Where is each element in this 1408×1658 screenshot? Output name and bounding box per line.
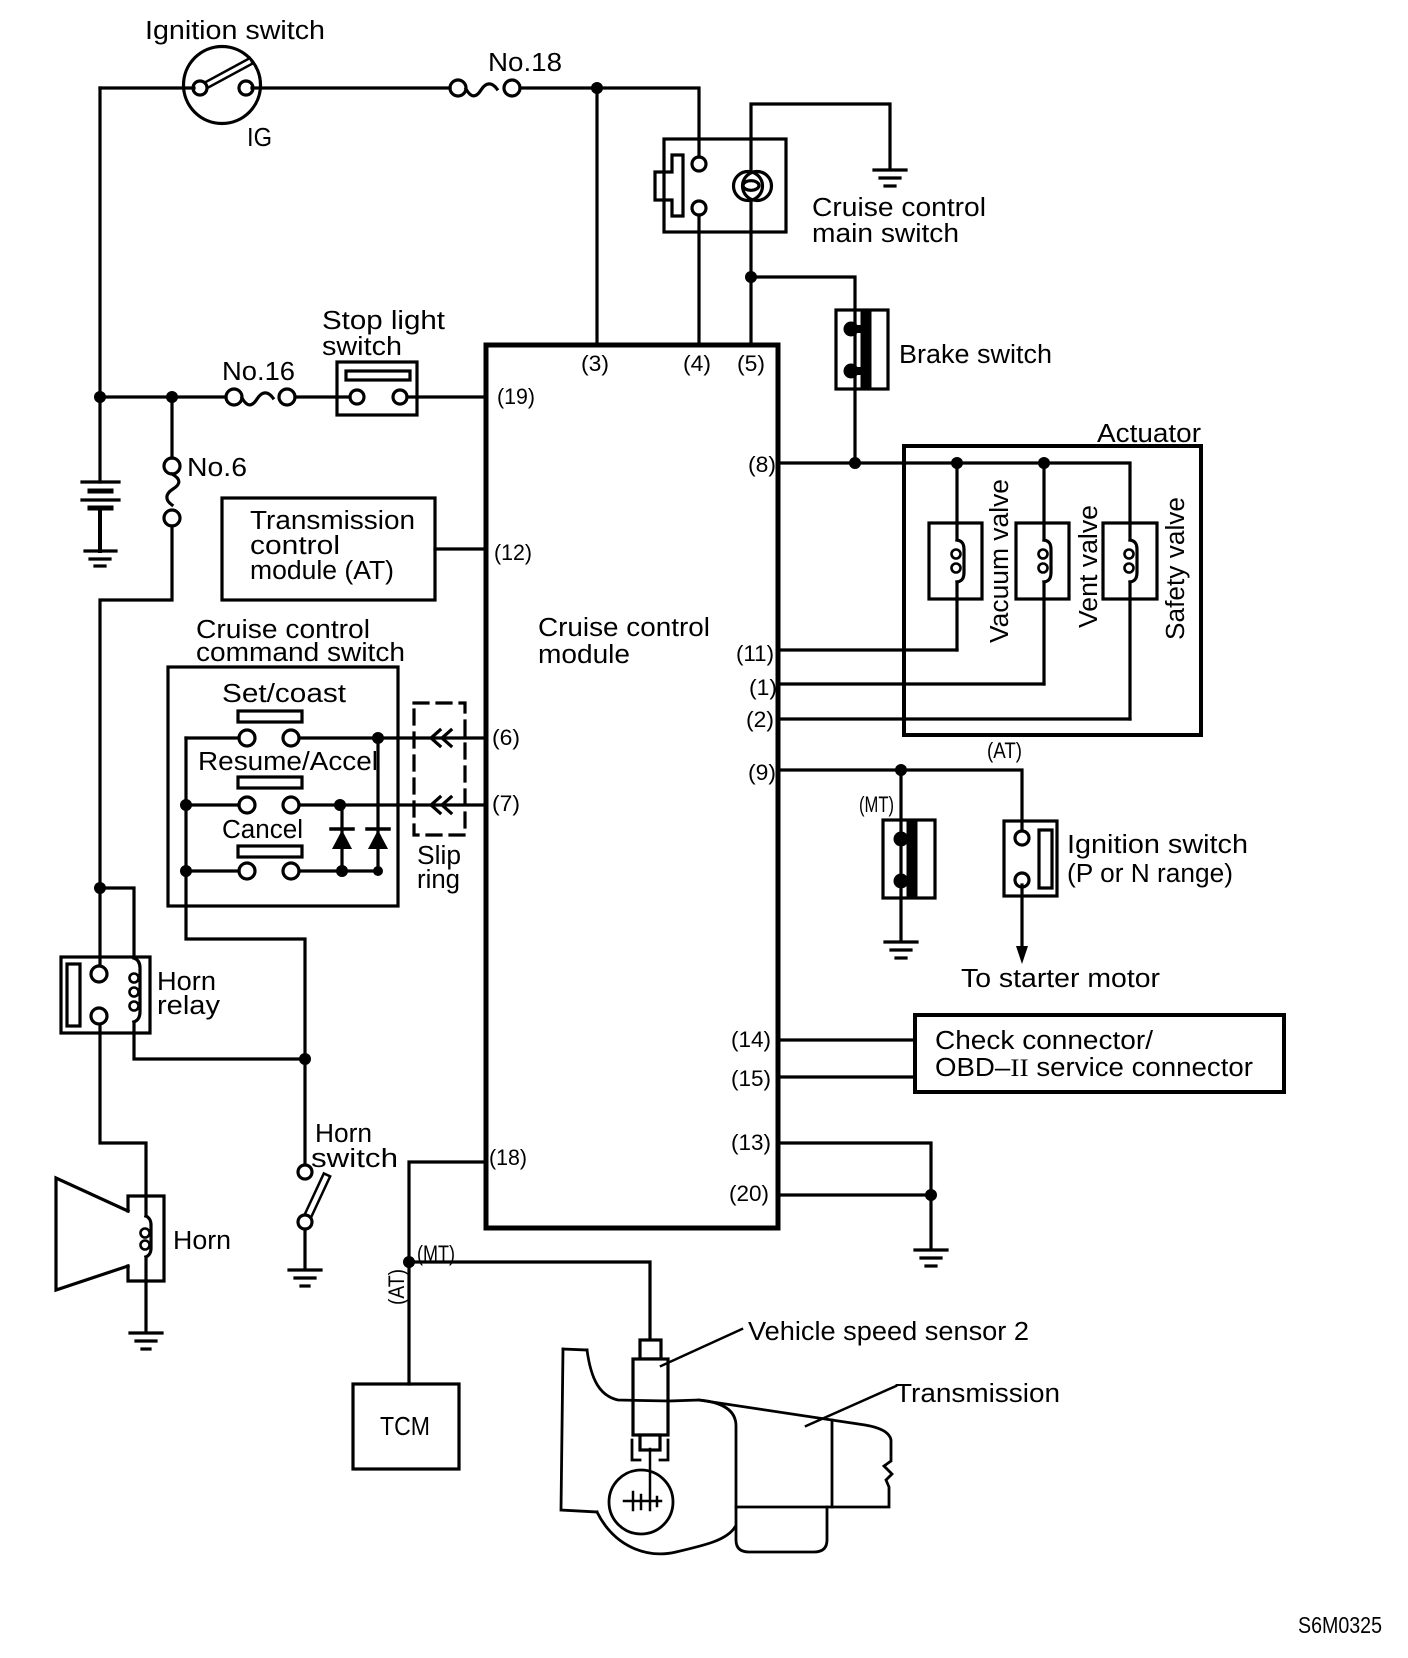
svg-text:Actuator: Actuator <box>1097 420 1202 448</box>
safety valve <box>1103 523 1157 719</box>
svg-text:Transmission: Transmission <box>895 1380 1060 1408</box>
svg-text:(MT): (MT) <box>859 792 894 817</box>
wire (15) <box>778 1075 915 1078</box>
slip ring arrow (6) <box>431 730 440 746</box>
node 13/20 <box>925 1189 937 1201</box>
wire cancel right to diodes <box>299 869 378 872</box>
svg-text:(11): (11) <box>736 641 774 666</box>
svg-text:(20): (20) <box>729 1181 769 1206</box>
svg-text:TCM: TCM <box>380 1411 430 1441</box>
vehicle speed sensor 2 <box>632 1340 668 1460</box>
svg-text:Safety valve: Safety valve <box>1162 497 1190 640</box>
svg-text:(15): (15) <box>731 1066 771 1091</box>
wire: pin 4 drop <box>697 215 700 345</box>
diode D1 <box>331 805 353 871</box>
svg-text:switch: switch <box>322 333 402 361</box>
TCM box <box>353 1384 459 1469</box>
wire: branch to brake switch <box>751 277 855 310</box>
svg-text:To starter motor: To starter motor <box>961 965 1161 993</box>
svg-text:ring: ring <box>417 866 460 894</box>
wire (13) <box>778 1143 931 1195</box>
stop light switch <box>337 362 417 415</box>
svg-text:Vehicle speed sensor 2: Vehicle speed sensor 2 <box>748 1318 1029 1346</box>
resume/accel switch <box>238 777 302 813</box>
svg-text:(2): (2) <box>746 707 774 732</box>
cruise control module box <box>486 345 778 1228</box>
wire resume left <box>186 803 239 806</box>
svg-text:Cruise control: Cruise control <box>538 614 710 642</box>
horn cone <box>56 1178 128 1290</box>
wire (6) <box>299 736 486 739</box>
svg-text:(6): (6) <box>492 725 520 750</box>
node horn switch <box>299 1053 311 1065</box>
svg-text:No.18: No.18 <box>488 49 562 77</box>
node cancel diode2 <box>373 866 383 876</box>
wire horn relay contact feed <box>98 888 101 965</box>
wire cancel left <box>186 869 239 872</box>
svg-text:Horn: Horn <box>173 1227 231 1255</box>
svg-text:(14): (14) <box>731 1027 771 1052</box>
svg-text:(5): (5) <box>737 351 765 376</box>
wire (11) <box>778 648 957 651</box>
svg-text:(P or N range): (P or N range) <box>1067 860 1233 888</box>
svg-text:No.16: No.16 <box>222 358 295 386</box>
wire horn relay coil feed <box>100 888 134 958</box>
diode D2 <box>367 738 389 871</box>
svg-text:(4): (4) <box>683 351 711 376</box>
wire (14) <box>778 1038 915 1041</box>
svg-text:(AT): (AT) <box>987 738 1022 763</box>
svg-text:command switch: command switch <box>196 639 405 667</box>
vacuum valve <box>929 463 982 650</box>
svg-text:(19): (19) <box>497 384 535 409</box>
check connector box <box>915 1015 1284 1092</box>
wire (19) <box>407 395 486 398</box>
svg-text:switch: switch <box>311 1145 398 1173</box>
svg-text:(3): (3) <box>581 351 609 376</box>
wire set/coast left <box>186 736 239 739</box>
svg-text:(12): (12) <box>494 540 532 565</box>
slip ring dashed box <box>414 703 465 835</box>
svg-text:No.6: No.6 <box>187 454 247 482</box>
svg-text:Transmission: Transmission <box>250 507 415 535</box>
svg-text:S6M0325: S6M0325 <box>1298 1612 1382 1638</box>
svg-text:Ignition switch: Ignition switch <box>1067 831 1248 859</box>
fuse No.6 <box>164 397 180 526</box>
slip ring arrow (7) <box>431 797 440 813</box>
svg-text:(9): (9) <box>748 760 776 785</box>
wire: pin 3 drop <box>595 88 598 345</box>
horn switch <box>298 1165 330 1229</box>
ground 13/20 <box>915 1250 947 1266</box>
svg-text:Stop light: Stop light <box>322 307 445 335</box>
vent valve <box>1016 463 1069 684</box>
fuse No.18 <box>450 80 520 96</box>
wire (2) <box>778 717 1130 720</box>
wire fuse No.6 to horn feed <box>100 526 172 888</box>
wire stop light feed y397 <box>100 395 226 398</box>
svg-text:module (AT): module (AT) <box>250 557 394 585</box>
wire: pin 5 drop with brake branch <box>749 203 752 345</box>
node brake branch <box>745 271 757 283</box>
node cancel diode1 <box>336 865 348 877</box>
battery <box>82 397 119 551</box>
wire fuse to stop light switch <box>295 395 350 398</box>
svg-text:Cruise control: Cruise control <box>812 194 986 222</box>
horn body <box>128 1196 164 1281</box>
ignition switch symbol <box>184 47 261 124</box>
horn relay <box>61 957 150 1033</box>
node vacuum valve <box>951 457 963 469</box>
svg-text:Set/coast: Set/coast <box>222 680 346 708</box>
ground horn <box>130 1333 162 1349</box>
wire horn switch to ground <box>303 1229 306 1268</box>
node left rail resume <box>180 799 192 811</box>
svg-text:Resume/Accel: Resume/Accel <box>198 748 378 776</box>
node MT/AT split <box>403 1256 415 1268</box>
svg-text:Ignition switch: Ignition switch <box>145 17 325 45</box>
svg-text:Check connector/: Check connector/ <box>935 1027 1154 1055</box>
svg-text:IG: IG <box>247 124 272 152</box>
transmission outline <box>561 1349 892 1554</box>
wire: node to main switch <box>597 88 699 157</box>
svg-text:(7): (7) <box>492 791 520 816</box>
node (9) branch <box>895 764 907 776</box>
wire: battery feed left vertical <box>98 88 101 397</box>
pointer transmission <box>806 1386 896 1426</box>
svg-text:relay: relay <box>157 992 220 1020</box>
node diode2 top <box>372 732 384 744</box>
wire (18) <box>409 1162 486 1384</box>
wire to clutch switch <box>899 770 902 820</box>
svg-text:(1): (1) <box>749 675 777 700</box>
wire relay coil to horn switch node <box>134 1022 305 1059</box>
node battery <box>94 391 106 403</box>
svg-text:Cancel: Cancel <box>222 816 303 844</box>
actuator box <box>904 446 1201 735</box>
svg-text:module: module <box>538 641 630 669</box>
wire clutch to ground <box>899 898 902 940</box>
cancel switch <box>238 846 302 879</box>
wire: brake switch to (8) line <box>853 389 856 463</box>
ground horn switch <box>289 1270 321 1286</box>
svg-text:(18): (18) <box>489 1145 527 1170</box>
fuse No.16 <box>226 389 295 405</box>
svg-text:Vacuum valve: Vacuum valve <box>986 479 1014 643</box>
node at (3) feed <box>591 82 603 94</box>
node vent valve <box>1038 457 1050 469</box>
ignition switch P or N range <box>1004 821 1057 896</box>
wire: ignition to fuse No.18 <box>100 86 194 89</box>
ground battery <box>85 551 116 566</box>
svg-text:(13): (13) <box>731 1130 771 1155</box>
cruise control main switch <box>655 139 786 232</box>
wire left rail <box>186 738 305 1165</box>
wire (9) <box>778 770 1022 829</box>
node horn feed <box>94 882 106 894</box>
ground main switch <box>874 170 906 186</box>
wire (8) line <box>778 463 1130 523</box>
svg-text:Horn: Horn <box>315 1120 372 1148</box>
svg-text:Vent valve: Vent valve <box>1075 505 1103 628</box>
svg-text:control: control <box>250 532 340 560</box>
svg-text:main switch: main switch <box>812 220 959 248</box>
wire to starter arrow <box>1020 885 1023 946</box>
ground clutch switch <box>885 942 917 958</box>
svg-text:OBD–II service connector: OBD–II service connector <box>935 1053 1254 1082</box>
svg-text:(AT): (AT) <box>384 1269 409 1305</box>
wire (1) <box>778 682 1044 685</box>
wire: fuse to node <box>520 86 597 89</box>
gear shift circle <box>609 1449 673 1534</box>
clutch switch (MT) <box>883 820 935 898</box>
set/coast switch <box>238 711 302 746</box>
brake switch <box>836 310 888 389</box>
transmission control module box <box>222 498 435 600</box>
wire relay contact to horn <box>100 1025 146 1196</box>
command switch box <box>168 667 398 906</box>
horn coil <box>141 1196 152 1331</box>
wire to vehicle speed sensor <box>409 1262 650 1340</box>
wire: lamp to ground <box>751 104 890 169</box>
node fuse No.6 <box>166 391 178 403</box>
wire (20) <box>778 1195 931 1248</box>
node diode1 top <box>334 799 346 811</box>
svg-text:Brake switch: Brake switch <box>899 341 1052 369</box>
pointer vehicle speed sensor <box>661 1329 742 1366</box>
node left rail cancel <box>180 865 192 877</box>
wire (12) <box>435 547 486 550</box>
wire (7) <box>299 803 486 806</box>
svg-text:(8): (8) <box>748 452 776 477</box>
node brake at (8) <box>849 457 861 469</box>
